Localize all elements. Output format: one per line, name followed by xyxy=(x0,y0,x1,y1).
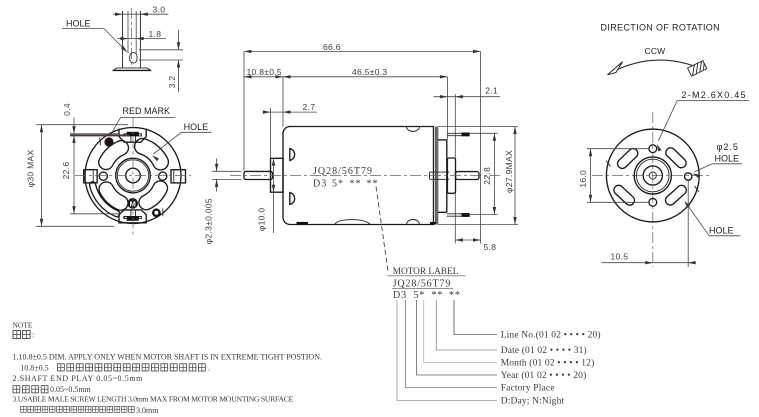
label leader Line No. xyxy=(454,300,601,341)
leader to motor label xyxy=(376,187,388,272)
dimension 0.4 and 22.6 with red mark line xyxy=(61,103,129,214)
detail shaft body outline xyxy=(123,11,141,68)
svg-text:5*: 5* xyxy=(332,178,344,189)
front view rim notch lower-right xyxy=(162,209,164,217)
dimension 2.7 xyxy=(262,102,317,158)
dimension 10.8 xyxy=(244,67,283,126)
front view ring hole xyxy=(153,210,159,216)
svg-text:5.8: 5.8 xyxy=(484,242,497,252)
svg-text:RED MARK: RED MARK xyxy=(123,106,171,116)
svg-text:Month (01 02 • • • • 12): Month (01 02 • • • • 12) xyxy=(501,358,595,369)
detail base flange xyxy=(113,68,152,71)
rear view vent slot upper-right xyxy=(666,148,686,168)
label leader D:Day; N:Night xyxy=(397,300,564,407)
rear view rim notch left xyxy=(606,161,611,167)
svg-text:HOLE: HOLE xyxy=(715,154,740,164)
svg-text:Line No.(01 02 • • • • 20): Line No.(01 02 • • • • 20) xyxy=(501,330,601,341)
label HOLE (detail view) xyxy=(62,18,128,52)
front view right small hole xyxy=(159,172,167,180)
side view motor body xyxy=(283,127,434,225)
svg-text:Year (01 02 • • • • 20): Year (01 02 • • • • 20) xyxy=(501,370,587,381)
svg-text:1.8: 1.8 xyxy=(149,29,162,39)
dimension phi2.3 xyxy=(203,159,241,245)
label 2-M2.6X0.45 xyxy=(657,90,749,151)
front view right brush tab xyxy=(171,170,186,183)
rear view vent slot lower-right xyxy=(665,185,686,205)
rear view phi2.5 hole xyxy=(685,173,692,180)
side view terminals xyxy=(447,133,470,217)
svg-text:10.8±0.5: 10.8±0.5 xyxy=(20,363,48,372)
note line 2 CJK xyxy=(20,363,210,372)
svg-text:10.8±0.5: 10.8±0.5 xyxy=(247,67,282,77)
label leader Factory Place xyxy=(405,300,554,394)
motor label detail title xyxy=(387,267,465,301)
side view left shaft phi2.3 xyxy=(244,171,273,179)
svg-text:HOLE: HOLE xyxy=(709,225,734,235)
svg-text:5*: 5* xyxy=(414,290,426,301)
side view vent D-hole upper xyxy=(290,149,295,161)
label leader Year xyxy=(417,300,587,381)
note line 6 CJK xyxy=(21,406,160,415)
detail shaft hole xyxy=(130,53,137,63)
note line 3 xyxy=(13,374,144,383)
svg-text:φ30 MAX: φ30 MAX xyxy=(26,150,36,188)
svg-text:66.6: 66.6 xyxy=(323,42,341,52)
dimension 46.5 xyxy=(283,67,447,140)
svg-text:1.10.8±0.5 DIM. APPLY ONLY WHE: 1.10.8±0.5 DIM. APPLY ONLY WHEN MOTOR SH… xyxy=(13,353,322,362)
svg-text:2-M2.6X0.45: 2-M2.6X0.45 xyxy=(682,90,747,100)
dimension 1.8 xyxy=(117,29,166,40)
side view vent D-hole lower xyxy=(290,193,295,205)
side view bottom black tick xyxy=(297,222,309,225)
svg-text:2.7: 2.7 xyxy=(303,102,316,112)
side view bottom bump xyxy=(335,220,371,225)
svg-text:NOTE: NOTE xyxy=(13,321,33,330)
svg-text:3.USABLE MALE SCREW LENGTH 3.0: 3.USABLE MALE SCREW LENGTH 3.0mm MAX FRO… xyxy=(13,395,294,404)
note line 1 xyxy=(13,353,322,362)
svg-text:MOTOR LABEL: MOTOR LABEL xyxy=(393,267,459,277)
svg-text:Factory Place: Factory Place xyxy=(501,384,555,394)
front view left small hole xyxy=(99,172,107,180)
svg-text:D:Day; N:Night: D:Day; N:Night xyxy=(501,397,565,407)
rear view boss circles xyxy=(634,157,671,194)
svg-text:**: ** xyxy=(449,290,461,301)
dimension phi27.9MAX xyxy=(438,127,518,225)
label leader Date xyxy=(436,300,587,356)
svg-text:φ27.9MAX: φ27.9MAX xyxy=(504,150,514,193)
svg-text:D3: D3 xyxy=(313,178,327,189)
label HOLE (rear view) xyxy=(684,201,740,236)
front view rim arc slot W xyxy=(90,182,120,217)
front view outer circle xyxy=(85,128,181,224)
svg-text:2.SHAFT END PLAY 0.05~0.5mm: 2.SHAFT END PLAY 0.05~0.5mm xyxy=(13,374,144,383)
dimension 3.2 xyxy=(139,30,183,92)
svg-text:**: ** xyxy=(350,178,362,189)
svg-text:16.0: 16.0 xyxy=(578,170,588,188)
front view red mark dot xyxy=(104,137,113,146)
svg-text:3.0: 3.0 xyxy=(153,4,166,14)
svg-text:HOLE: HOLE xyxy=(66,18,91,28)
notes heading CJK (要求:) xyxy=(13,331,34,340)
svg-text:0.4: 0.4 xyxy=(62,103,72,116)
CCW rotation arrow xyxy=(608,60,707,76)
svg-text:10.5: 10.5 xyxy=(611,252,629,262)
front view vent slot NW xyxy=(99,141,129,170)
side view right shaft xyxy=(456,172,480,180)
dimension phi10.0 xyxy=(257,158,276,233)
label DIRECTION OF ROTATION / CCW xyxy=(601,23,721,56)
front view top terminal tab xyxy=(119,129,146,143)
side view right bearing boss xyxy=(447,158,455,193)
svg-text:HOLE: HOLE xyxy=(184,122,209,132)
dimension phi30 MAX xyxy=(26,125,128,227)
label leader Month xyxy=(424,300,595,369)
side view end cap xyxy=(430,127,447,225)
svg-text:22.8: 22.8 xyxy=(482,167,492,185)
label phi2.5 HOLE xyxy=(692,142,742,178)
svg-text:φ2.5: φ2.5 xyxy=(717,142,739,152)
dimension 66.6 xyxy=(244,42,481,244)
side view bottom rim notch xyxy=(407,220,420,225)
svg-text:3.2: 3.2 xyxy=(167,76,177,89)
front view M logo xyxy=(127,198,138,209)
dimension 2.1 xyxy=(434,85,500,158)
label RED MARK xyxy=(110,106,175,136)
rear view vent slot upper-left xyxy=(618,149,638,169)
svg-text:22.6: 22.6 xyxy=(61,162,71,180)
rear view rim notch right xyxy=(695,186,699,192)
note line 5 xyxy=(13,395,294,404)
side view shaft through cap xyxy=(430,172,450,179)
label HOLE (front view) xyxy=(152,122,211,161)
front view vent slot SE xyxy=(139,181,168,210)
svg-text:46.5±0.3: 46.5±0.3 xyxy=(352,67,387,77)
side view centerline xyxy=(230,175,500,177)
svg-text:**: ** xyxy=(367,178,379,189)
dimension 5.8 xyxy=(455,194,496,253)
svg-text:2.1: 2.1 xyxy=(485,85,498,95)
side view top rim notch xyxy=(407,127,420,132)
dimension 10.5 xyxy=(602,181,696,268)
front view bottom terminal tab xyxy=(119,210,146,223)
svg-text:CCW: CCW xyxy=(645,46,666,56)
dimension 22.8 xyxy=(470,133,498,214)
front view centerlines xyxy=(75,118,191,237)
front view center boss xyxy=(116,158,151,193)
front view rim notch upper-left xyxy=(99,138,102,146)
svg-text:Date (01 02 • • • • 31): Date (01 02 • • • • 31) xyxy=(501,345,587,356)
svg-text:φ2.3±0.005: φ2.3±0.005 xyxy=(203,198,213,244)
svg-text:DIRECTION OF ROTATION: DIRECTION OF ROTATION xyxy=(601,23,721,33)
svg-text:0.05~0.5mm: 0.05~0.5mm xyxy=(50,385,92,394)
dimension 16.0 xyxy=(578,149,649,203)
svg-text:JQ28/56T79: JQ28/56T79 xyxy=(393,279,452,290)
rear view top screw hole xyxy=(649,145,657,153)
motor label text on body xyxy=(313,166,379,190)
front view vent slot NE (HOLE) xyxy=(135,139,169,170)
front view vent slot SW xyxy=(99,182,128,210)
svg-text:3.0mm: 3.0mm xyxy=(136,406,159,415)
svg-text:.: . xyxy=(208,363,210,372)
rear view centerlines xyxy=(592,112,712,267)
svg-text:**: ** xyxy=(432,290,444,301)
svg-text:JQ28/56T79: JQ28/56T79 xyxy=(313,166,373,177)
detail view shaft centerline xyxy=(131,8,133,66)
svg-text::: : xyxy=(32,331,34,340)
dimension 3.0 xyxy=(113,4,168,16)
svg-text:D3: D3 xyxy=(393,290,407,301)
svg-text:φ10.0: φ10.0 xyxy=(257,208,267,232)
rear view outer circle xyxy=(606,129,699,222)
rear view bottom screw hole xyxy=(649,198,657,206)
note line 4 CJK xyxy=(13,385,92,394)
notes NOTE xyxy=(13,321,33,330)
side view left bearing boss phi10 xyxy=(271,158,284,192)
front view left brush tab xyxy=(84,170,97,183)
rear view vent slot lower-left xyxy=(614,185,635,205)
